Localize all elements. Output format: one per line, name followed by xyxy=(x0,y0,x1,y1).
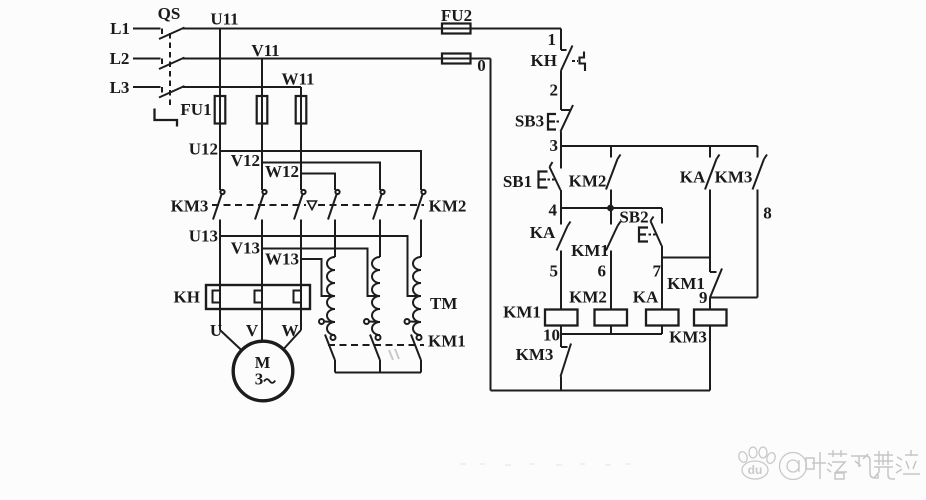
contactor KM3 main pole 2 xyxy=(255,190,267,341)
svg-text:SB2: SB2 xyxy=(619,208,648,227)
motor M circle xyxy=(233,341,293,401)
contact KM2 aux NO xyxy=(606,146,621,208)
watermark char 2 xyxy=(827,450,847,479)
svg-text:L2: L2 xyxy=(110,49,130,68)
node L2 xyxy=(133,58,161,60)
svg-text:L1: L1 xyxy=(110,19,130,38)
QS linkage dashed xyxy=(169,33,171,108)
wire W13 branch to TM coil 1 feed xyxy=(301,259,335,296)
svg-text:8: 8 xyxy=(763,204,772,223)
wire U13 branch to TM coil 3 feed xyxy=(220,236,421,296)
wire V fuse to KM3 contact xyxy=(261,124,263,191)
svg-text:V: V xyxy=(246,321,259,340)
wire TM star bus xyxy=(335,372,421,374)
svg-text:SB1: SB1 xyxy=(503,172,532,191)
watermark char 1 xyxy=(806,452,826,479)
interlock dashed line KM3-KM2 xyxy=(212,204,424,206)
KH heater element W xyxy=(294,291,302,303)
thermal relay KH heater box xyxy=(206,285,310,309)
contactor KM1 star pole 1 xyxy=(325,335,336,373)
svg-text:U: U xyxy=(210,321,222,340)
wire L2 to FU2b xyxy=(183,58,442,60)
contact KA aux NO (seal of KA) xyxy=(705,146,720,258)
contact KM1 NC xyxy=(710,258,722,310)
node L3 xyxy=(133,86,161,88)
svg-text:1: 1 xyxy=(548,30,557,49)
wire V13 branch to TM coil 2 feed xyxy=(262,249,380,297)
button SB2 xyxy=(639,208,662,310)
coil KM1 xyxy=(545,310,578,326)
wire node1-2 xyxy=(560,71,562,111)
node 3 bus xyxy=(561,145,758,147)
interlock triangle xyxy=(308,201,317,210)
svg-text:KM3: KM3 xyxy=(516,345,554,364)
watermark char 3 xyxy=(851,454,878,478)
wire L3 to W11 xyxy=(183,86,301,88)
svg-text:FU1: FU1 xyxy=(180,100,211,119)
switch QS pole 3 xyxy=(159,86,185,98)
contactor KM2 main pole 3 xyxy=(414,190,426,257)
svg-text:10: 10 xyxy=(543,326,560,345)
svg-text:W: W xyxy=(282,321,299,340)
svg-text:du: du xyxy=(748,463,763,477)
wire FU2 to control branch xyxy=(471,28,562,30)
faint dotted marks xyxy=(460,464,630,465)
svg-text:KA: KA xyxy=(680,168,706,187)
svg-text:QS: QS xyxy=(158,4,181,23)
svg-text:KA: KA xyxy=(530,223,556,242)
svg-text:0: 0 xyxy=(477,56,486,75)
contact KM1 aux NO xyxy=(606,208,621,310)
svg-text:V13: V13 xyxy=(231,239,260,258)
svg-text:TM: TM xyxy=(430,294,457,313)
KH heater element V xyxy=(255,291,263,303)
TM tap terminal 1 xyxy=(319,319,335,324)
svg-text:3: 3 xyxy=(255,370,264,389)
svg-text:V11: V11 xyxy=(251,41,279,60)
contactor KM1 star pole 3 xyxy=(411,335,422,373)
wire FU2b to 0 line xyxy=(471,58,491,60)
wire V11 vertical xyxy=(261,59,263,97)
node 7 link wire xyxy=(662,257,710,259)
wire U to motor xyxy=(220,330,241,350)
svg-text:KM2: KM2 xyxy=(569,172,607,191)
wire U fuse to KM3 contact xyxy=(219,124,221,191)
node 4 bus xyxy=(561,206,662,211)
svg-text:L3: L3 xyxy=(110,78,130,97)
wire control branch down from FU2 xyxy=(560,29,562,51)
svg-text:U12: U12 xyxy=(189,140,218,159)
svg-text:KM3: KM3 xyxy=(171,197,209,216)
watermark characters xyxy=(806,450,920,479)
node L1 xyxy=(133,28,161,30)
switch QS pole 2 xyxy=(159,58,185,70)
wire KM3 coil bottom xyxy=(709,326,711,391)
wire W11 vertical xyxy=(300,87,302,96)
svg-text:KM3: KM3 xyxy=(715,168,753,187)
svg-text:W13: W13 xyxy=(265,250,299,269)
wire W fuse to KM3 contact xyxy=(300,124,302,191)
svg-text:KM1: KM1 xyxy=(428,332,466,351)
svg-text:U11: U11 xyxy=(210,10,238,29)
wire U11 vertical xyxy=(219,29,221,97)
svg-text:U13: U13 xyxy=(189,227,218,246)
svg-text:6: 6 xyxy=(598,262,607,281)
contact KA NO xyxy=(557,208,571,310)
coil KM3 xyxy=(694,310,727,326)
contact KM3 NC xyxy=(561,344,572,391)
svg-text:3: 3 xyxy=(550,136,559,155)
contactor KM2 main pole 2 xyxy=(373,190,385,257)
svg-text:5: 5 xyxy=(550,262,559,281)
node 9 link wire xyxy=(710,297,758,299)
svg-text:W11: W11 xyxy=(281,70,314,89)
KM1 linkage dashed xyxy=(328,344,424,346)
fuse FU1 phase U xyxy=(215,96,226,124)
contact KM3 aux NO xyxy=(753,146,768,298)
svg-text:KM1: KM1 xyxy=(571,241,609,260)
svg-text:KH: KH xyxy=(174,288,200,307)
wire W to motor xyxy=(283,330,301,350)
fuse FU1 phase W xyxy=(296,96,307,124)
svg-text:KA: KA xyxy=(633,288,659,307)
coil KA xyxy=(646,310,679,326)
svg-text:9: 9 xyxy=(699,288,708,307)
svg-text:KM2: KM2 xyxy=(429,197,467,216)
contactor KM2 main pole 1 xyxy=(328,190,340,257)
watermark baidu xyxy=(737,447,806,480)
watermark char 4 xyxy=(874,451,895,479)
transformer TM coil 1 xyxy=(327,257,335,335)
coil KM2 xyxy=(595,310,628,326)
QS handle xyxy=(155,109,178,127)
wire bottom bus xyxy=(491,390,711,392)
switch QS pole 1 xyxy=(159,28,185,40)
transformer TM coil 3 xyxy=(413,257,421,335)
fuse FU1 phase V xyxy=(257,96,268,124)
svg-text:KM3: KM3 xyxy=(669,328,707,347)
KH heater element U xyxy=(213,291,221,303)
svg-text:4: 4 xyxy=(549,201,558,220)
watermark char 5 xyxy=(896,450,920,474)
contactor KM3 main pole 1 xyxy=(213,190,225,330)
svg-text:SB3: SB3 xyxy=(515,112,544,131)
svg-text:KM1: KM1 xyxy=(503,303,541,322)
thermal contact KH xyxy=(561,46,585,72)
svg-text:KH: KH xyxy=(531,51,557,70)
svg-text:W12: W12 xyxy=(265,162,299,181)
svg-text:KM2: KM2 xyxy=(569,288,607,307)
contactor KM3 main pole 3 xyxy=(294,190,306,330)
wire 0 line vertical xyxy=(490,59,492,391)
wire L1 to FU2 xyxy=(183,28,442,30)
TM tap terminal 3 xyxy=(405,319,422,324)
svg-text:7: 7 xyxy=(653,262,662,281)
svg-text:FU2: FU2 xyxy=(441,6,472,25)
TM tap terminal 2 xyxy=(364,319,380,324)
contactor KM1 star pole 2 xyxy=(370,335,381,373)
wire U12 branch xyxy=(220,151,421,190)
wire W12 branch xyxy=(301,174,335,191)
wire KM2 KA coil bottoms xyxy=(561,326,662,335)
transformer TM coil 2 xyxy=(372,257,380,335)
svg-text:V12: V12 xyxy=(231,151,260,170)
button SB3 stop xyxy=(548,105,573,146)
wire KM1 coil to node 10 xyxy=(560,326,562,348)
fuse FU2 upper xyxy=(442,24,471,34)
button SB1 start xyxy=(539,146,562,208)
watermark scratch xyxy=(389,349,399,360)
svg-text:2: 2 xyxy=(550,81,559,100)
fuse FU2 lower xyxy=(442,54,471,64)
wire V12 branch xyxy=(262,163,380,191)
